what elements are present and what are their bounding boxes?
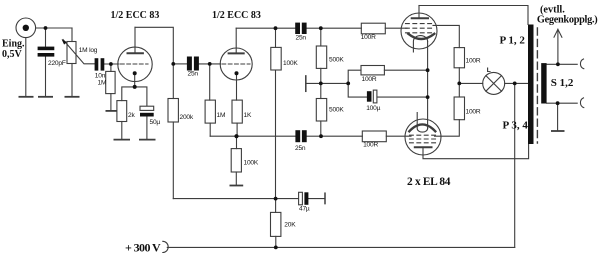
svg-text:1/2 ECC 83: 1/2 ECC 83 (111, 10, 160, 21)
svg-text:100R: 100R (466, 109, 481, 116)
svg-text:100R: 100R (362, 76, 377, 83)
svg-text:25n: 25n (296, 35, 307, 42)
svg-text:20K: 20K (284, 222, 296, 229)
svg-text:1M log: 1M log (79, 47, 98, 54)
svg-text:P 1, 2: P 1, 2 (500, 35, 526, 47)
svg-text:1M: 1M (98, 80, 107, 87)
svg-text:S 1,2: S 1,2 (551, 77, 574, 89)
svg-text:100K: 100K (244, 160, 259, 167)
svg-text:25n: 25n (295, 145, 306, 152)
svg-text:200k: 200k (180, 114, 194, 121)
svg-text:100R: 100R (466, 58, 481, 65)
svg-text:L: L (487, 67, 491, 74)
svg-text:0,5V: 0,5V (2, 49, 23, 60)
svg-text:50µ: 50µ (150, 119, 161, 126)
svg-text:100K: 100K (283, 60, 298, 67)
svg-text:1M: 1M (217, 112, 226, 119)
svg-text:100µ: 100µ (366, 105, 380, 112)
svg-text:1/2 ECC 83: 1/2 ECC 83 (212, 10, 261, 21)
svg-text:220pF: 220pF (48, 60, 66, 67)
svg-text:Gegenkopplg.): Gegenkopplg.) (537, 15, 597, 26)
svg-text:100R: 100R (363, 142, 378, 149)
svg-text:+ 300 V: + 300 V (125, 241, 161, 255)
svg-text:Eing.: Eing. (2, 39, 25, 50)
svg-text:500K: 500K (329, 107, 344, 114)
svg-text:1K: 1K (244, 112, 252, 119)
svg-text:2k: 2k (128, 112, 135, 119)
svg-text:P 3, 4: P 3, 4 (503, 120, 529, 132)
svg-text:47µ: 47µ (299, 206, 310, 213)
svg-text:500K: 500K (329, 57, 344, 64)
svg-text:2 x EL 84: 2 x EL 84 (407, 176, 451, 188)
svg-text:10n: 10n (95, 73, 106, 80)
svg-text:25n: 25n (188, 71, 199, 78)
svg-text:100R: 100R (361, 34, 376, 41)
